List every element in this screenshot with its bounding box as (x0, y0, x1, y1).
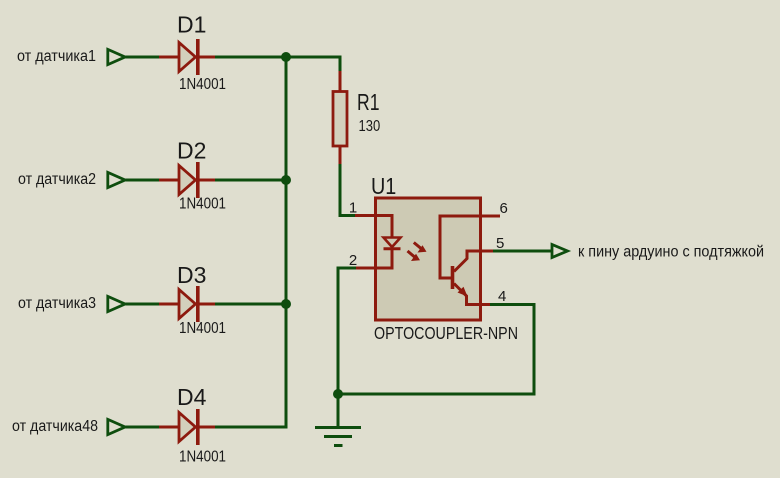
U1 body box (376, 198, 481, 320)
pin 5 stub (478, 250, 494, 253)
wire: D2 cathode to bus (215, 179, 286, 182)
wire: D1 cathode to node A (215, 56, 342, 59)
svg-text:от датчика2: от датчика2 (18, 171, 96, 188)
diode D4 (159, 384, 226, 466)
svg-text:130: 130 (359, 118, 381, 135)
node junction at ground (333, 389, 343, 399)
diode D2 (159, 138, 226, 213)
svg-text:D1: D1 (177, 12, 206, 38)
wire: pin2 to ground node (338, 268, 356, 394)
svg-text:R1: R1 (357, 89, 380, 115)
wire: T3 to D3 anode (126, 303, 161, 306)
diode D1 (159, 12, 226, 94)
input terminal T4 (108, 419, 125, 434)
svg-text:1N4001: 1N4001 (179, 196, 226, 213)
node junction at D3 bus (281, 299, 291, 309)
light arrow 1 (414, 243, 427, 253)
svg-text:D3: D3 (177, 262, 206, 288)
light arrow 2 (408, 251, 421, 261)
svg-text:D4: D4 (177, 384, 207, 410)
wire: T4 to D4 anode (126, 426, 161, 429)
node junction at D1 bus (281, 52, 291, 62)
output terminal (552, 245, 568, 258)
input terminal T1 (108, 49, 125, 64)
phototransistor collector (454, 251, 480, 272)
wire: pin4 loop to ground node (338, 305, 534, 395)
svg-text:от датчика48: от датчика48 (12, 418, 98, 435)
phototransistor emitter (454, 284, 481, 305)
wire: D3 cathode to bus (215, 303, 286, 306)
wire: ground stem (337, 394, 340, 428)
svg-text:1: 1 (349, 200, 357, 217)
svg-text:2: 2 (349, 252, 357, 269)
wire: R1 bottom to U1 pin1 (340, 164, 356, 216)
pin 6 stub (478, 215, 500, 218)
svg-text:от датчика3: от датчика3 (18, 295, 96, 312)
svg-text:от датчика1: от датчика1 (17, 48, 96, 65)
pin 1 stub (355, 214, 377, 217)
wire: pin5 to output terminal (493, 250, 552, 253)
phototransistor base bar (451, 266, 455, 289)
op-amp U1 optocoupler (349, 173, 518, 343)
svg-text:6: 6 (500, 200, 508, 217)
svg-text:4: 4 (498, 288, 506, 305)
wire: T2 to D2 anode (126, 179, 161, 182)
wire: diode bus vertical (285, 57, 288, 429)
LED triangle (384, 238, 401, 248)
svg-text:1N4001: 1N4001 (179, 449, 226, 466)
wire: D4 cathode to bus corner (215, 426, 288, 429)
svg-text:D2: D2 (177, 138, 206, 164)
input terminal T2 (108, 172, 125, 187)
svg-text:к пину ардуино с подтяжкой: к пину ардуино с подтяжкой (578, 244, 764, 261)
LED anode lead (376, 216, 393, 239)
input terminal T3 (108, 296, 125, 311)
svg-text:1N4001: 1N4001 (179, 76, 226, 93)
svg-text:OPTOCOUPLER-NPN: OPTOCOUPLER-NPN (374, 323, 518, 343)
pin 2 stub (355, 267, 377, 270)
wire: T1 to D1 anode (126, 56, 161, 59)
wire: node A down to R1 (339, 57, 342, 72)
LED cathode bar (384, 247, 401, 250)
pin 4 stub (478, 303, 491, 306)
svg-text:1N4001: 1N4001 (179, 320, 226, 337)
svg-text:U1: U1 (371, 173, 396, 199)
LED cathode lead (376, 249, 393, 268)
ground (315, 428, 361, 446)
node junction at D2 bus (281, 175, 291, 185)
diode D3 (159, 262, 226, 337)
resistor R1 (333, 71, 380, 165)
svg-text:5: 5 (496, 235, 504, 252)
emitter arrowhead (458, 287, 468, 297)
phototransistor base feed from pin 6 (440, 216, 478, 278)
